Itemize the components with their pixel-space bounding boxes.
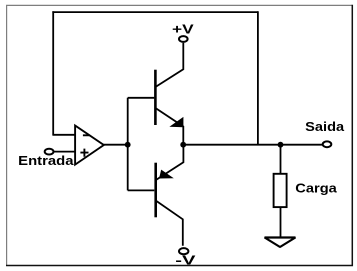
wire load top	[280, 145, 282, 174]
node Saida output terminal	[323, 141, 332, 147]
svg-text:Carga: Carga	[295, 181, 337, 196]
wire NPN base	[128, 97, 155, 99]
svg-text:Saida: Saida	[305, 119, 345, 134]
wire op-amp output	[104, 144, 129, 146]
node -V supply terminal	[179, 248, 188, 254]
wire feedback into inverting input	[52, 134, 75, 136]
node +V supply terminal	[179, 36, 188, 42]
wire input to non-inverting input	[54, 151, 76, 153]
resistor Carga	[274, 174, 287, 207]
wire output rail	[183, 144, 322, 146]
wire base drive vertical	[127, 98, 129, 191]
wire PNP base	[128, 189, 155, 191]
transistor Q2 PNP	[156, 145, 184, 246]
ground	[265, 238, 296, 248]
wire load bottom	[280, 207, 282, 237]
node Entrada input terminal	[45, 149, 54, 155]
node junction emitters to output	[180, 142, 186, 148]
node junction output to load	[278, 142, 284, 148]
wire top feedback rail	[52, 11, 258, 13]
svg-text:Entrada: Entrada	[18, 153, 74, 168]
transistor Q1 NPN	[155, 43, 183, 145]
svg-text:-V: -V	[175, 254, 196, 268]
node junction op-amp output to bases	[125, 142, 131, 148]
svg-text:+V: +V	[172, 23, 195, 37]
wire right vertical from top rail	[257, 11, 259, 145]
wire left feedback vertical	[52, 11, 54, 135]
op-amp U1	[75, 126, 104, 165]
